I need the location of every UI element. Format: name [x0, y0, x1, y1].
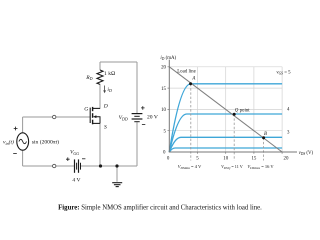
svg-text:4: 4 [287, 108, 290, 113]
point B [262, 136, 265, 139]
wire right rail lower [136, 122, 138, 166]
svg-text:RD: RD [85, 75, 92, 81]
wire top rail [100, 61, 137, 63]
svg-text:15: 15 [251, 157, 256, 162]
wire resistor top lead [99, 62, 101, 70]
svg-text:VDSmin = 4 V: VDSmin = 4 V [178, 164, 202, 170]
wire bottom rail [81, 165, 137, 167]
dashed line VDSmin [190, 84, 192, 161]
svg-text:Figure: Simple NMOS amplifier: Figure: Simple NMOS amplifier circuit an… [58, 204, 262, 211]
svg-text:S: S [104, 125, 107, 131]
svg-text:vin(t): vin(t) [3, 139, 14, 146]
svg-text:VDD: VDD [119, 115, 128, 121]
current arrow iD [103, 86, 106, 94]
svg-text:iD (mA): iD (mA) [160, 56, 176, 61]
svg-text:5: 5 [196, 157, 199, 162]
minus sign of VGG [82, 158, 85, 160]
y axis ticks [168, 67, 170, 131]
minus sign of VIN [13, 152, 17, 154]
svg-text:5: 5 [164, 130, 167, 135]
svg-text:20: 20 [284, 157, 289, 162]
dashed line VDSmax [263, 138, 265, 161]
resistor RD [97, 70, 103, 84]
svg-text:vGS = 5: vGS = 5 [276, 70, 291, 75]
svg-text:Q point: Q point [235, 109, 250, 114]
plus sign of VIN [14, 127, 18, 131]
svg-text:Load line: Load line [177, 70, 196, 75]
svg-text:0: 0 [163, 151, 166, 156]
plus sign of VDD [141, 106, 145, 110]
dashed line VDSQ [233, 114, 235, 160]
svg-text:15: 15 [161, 87, 166, 92]
curve vGS=4 [169, 114, 282, 152]
wire gate horizontal [23, 116, 91, 118]
svg-text:4 V: 4 V [72, 177, 80, 183]
svg-text:sin (2000πt): sin (2000πt) [32, 139, 59, 146]
terminal circle bottom [53, 164, 56, 167]
terminal circle top [53, 115, 56, 118]
svg-text:VDSmax = 16 V: VDSmax = 16 V [247, 164, 274, 170]
voltage source VIN [17, 133, 29, 150]
point A [189, 82, 192, 85]
wire right rail upper [136, 62, 138, 113]
x axis ticks [198, 152, 283, 154]
svg-text:B: B [264, 132, 267, 137]
wire ground stem [116, 166, 118, 182]
svg-text:D: D [103, 103, 108, 109]
plus sign of VGG [66, 157, 70, 161]
svg-text:1 kΩ: 1 kΩ [104, 71, 115, 77]
wire source vertical [93, 123, 100, 166]
svg-text:3: 3 [287, 131, 290, 136]
battery VDD [132, 114, 143, 122]
svg-text:0: 0 [167, 157, 170, 162]
transistor body arrow [93, 115, 96, 118]
load line [169, 67, 282, 152]
junction dot source-VGG node [99, 164, 102, 167]
svg-text:10: 10 [223, 157, 228, 162]
battery VGG [75, 159, 81, 172]
curve vGS=2 [169, 148, 282, 152]
svg-text:A: A [191, 77, 195, 82]
svg-text:10: 10 [161, 108, 166, 113]
wire source lead lower [22, 150, 24, 166]
grid [169, 67, 282, 152]
transistor M1 NMOS [90, 107, 100, 124]
junction dot ground node [115, 164, 118, 167]
svg-text:VGG: VGG [70, 150, 79, 156]
point Q [233, 113, 236, 116]
svg-text:20 V: 20 V [147, 114, 158, 120]
wire bottom rail left [23, 165, 75, 167]
svg-text:vDS (V): vDS (V) [299, 151, 314, 156]
ground [112, 183, 122, 187]
wire source lead upper [22, 117, 24, 133]
curve vGS=3 [169, 137, 282, 152]
svg-text:G: G [84, 107, 88, 113]
svg-text:20: 20 [161, 66, 166, 71]
wire resistor bottom to drain [93, 84, 100, 108]
curve vGS=5 [169, 84, 282, 152]
axes [169, 60, 297, 152]
minus sign of VDD [142, 123, 145, 125]
svg-text:VDSQ = 11 V: VDSQ = 11 V [221, 164, 243, 170]
svg-text:iD: iD [107, 87, 112, 93]
